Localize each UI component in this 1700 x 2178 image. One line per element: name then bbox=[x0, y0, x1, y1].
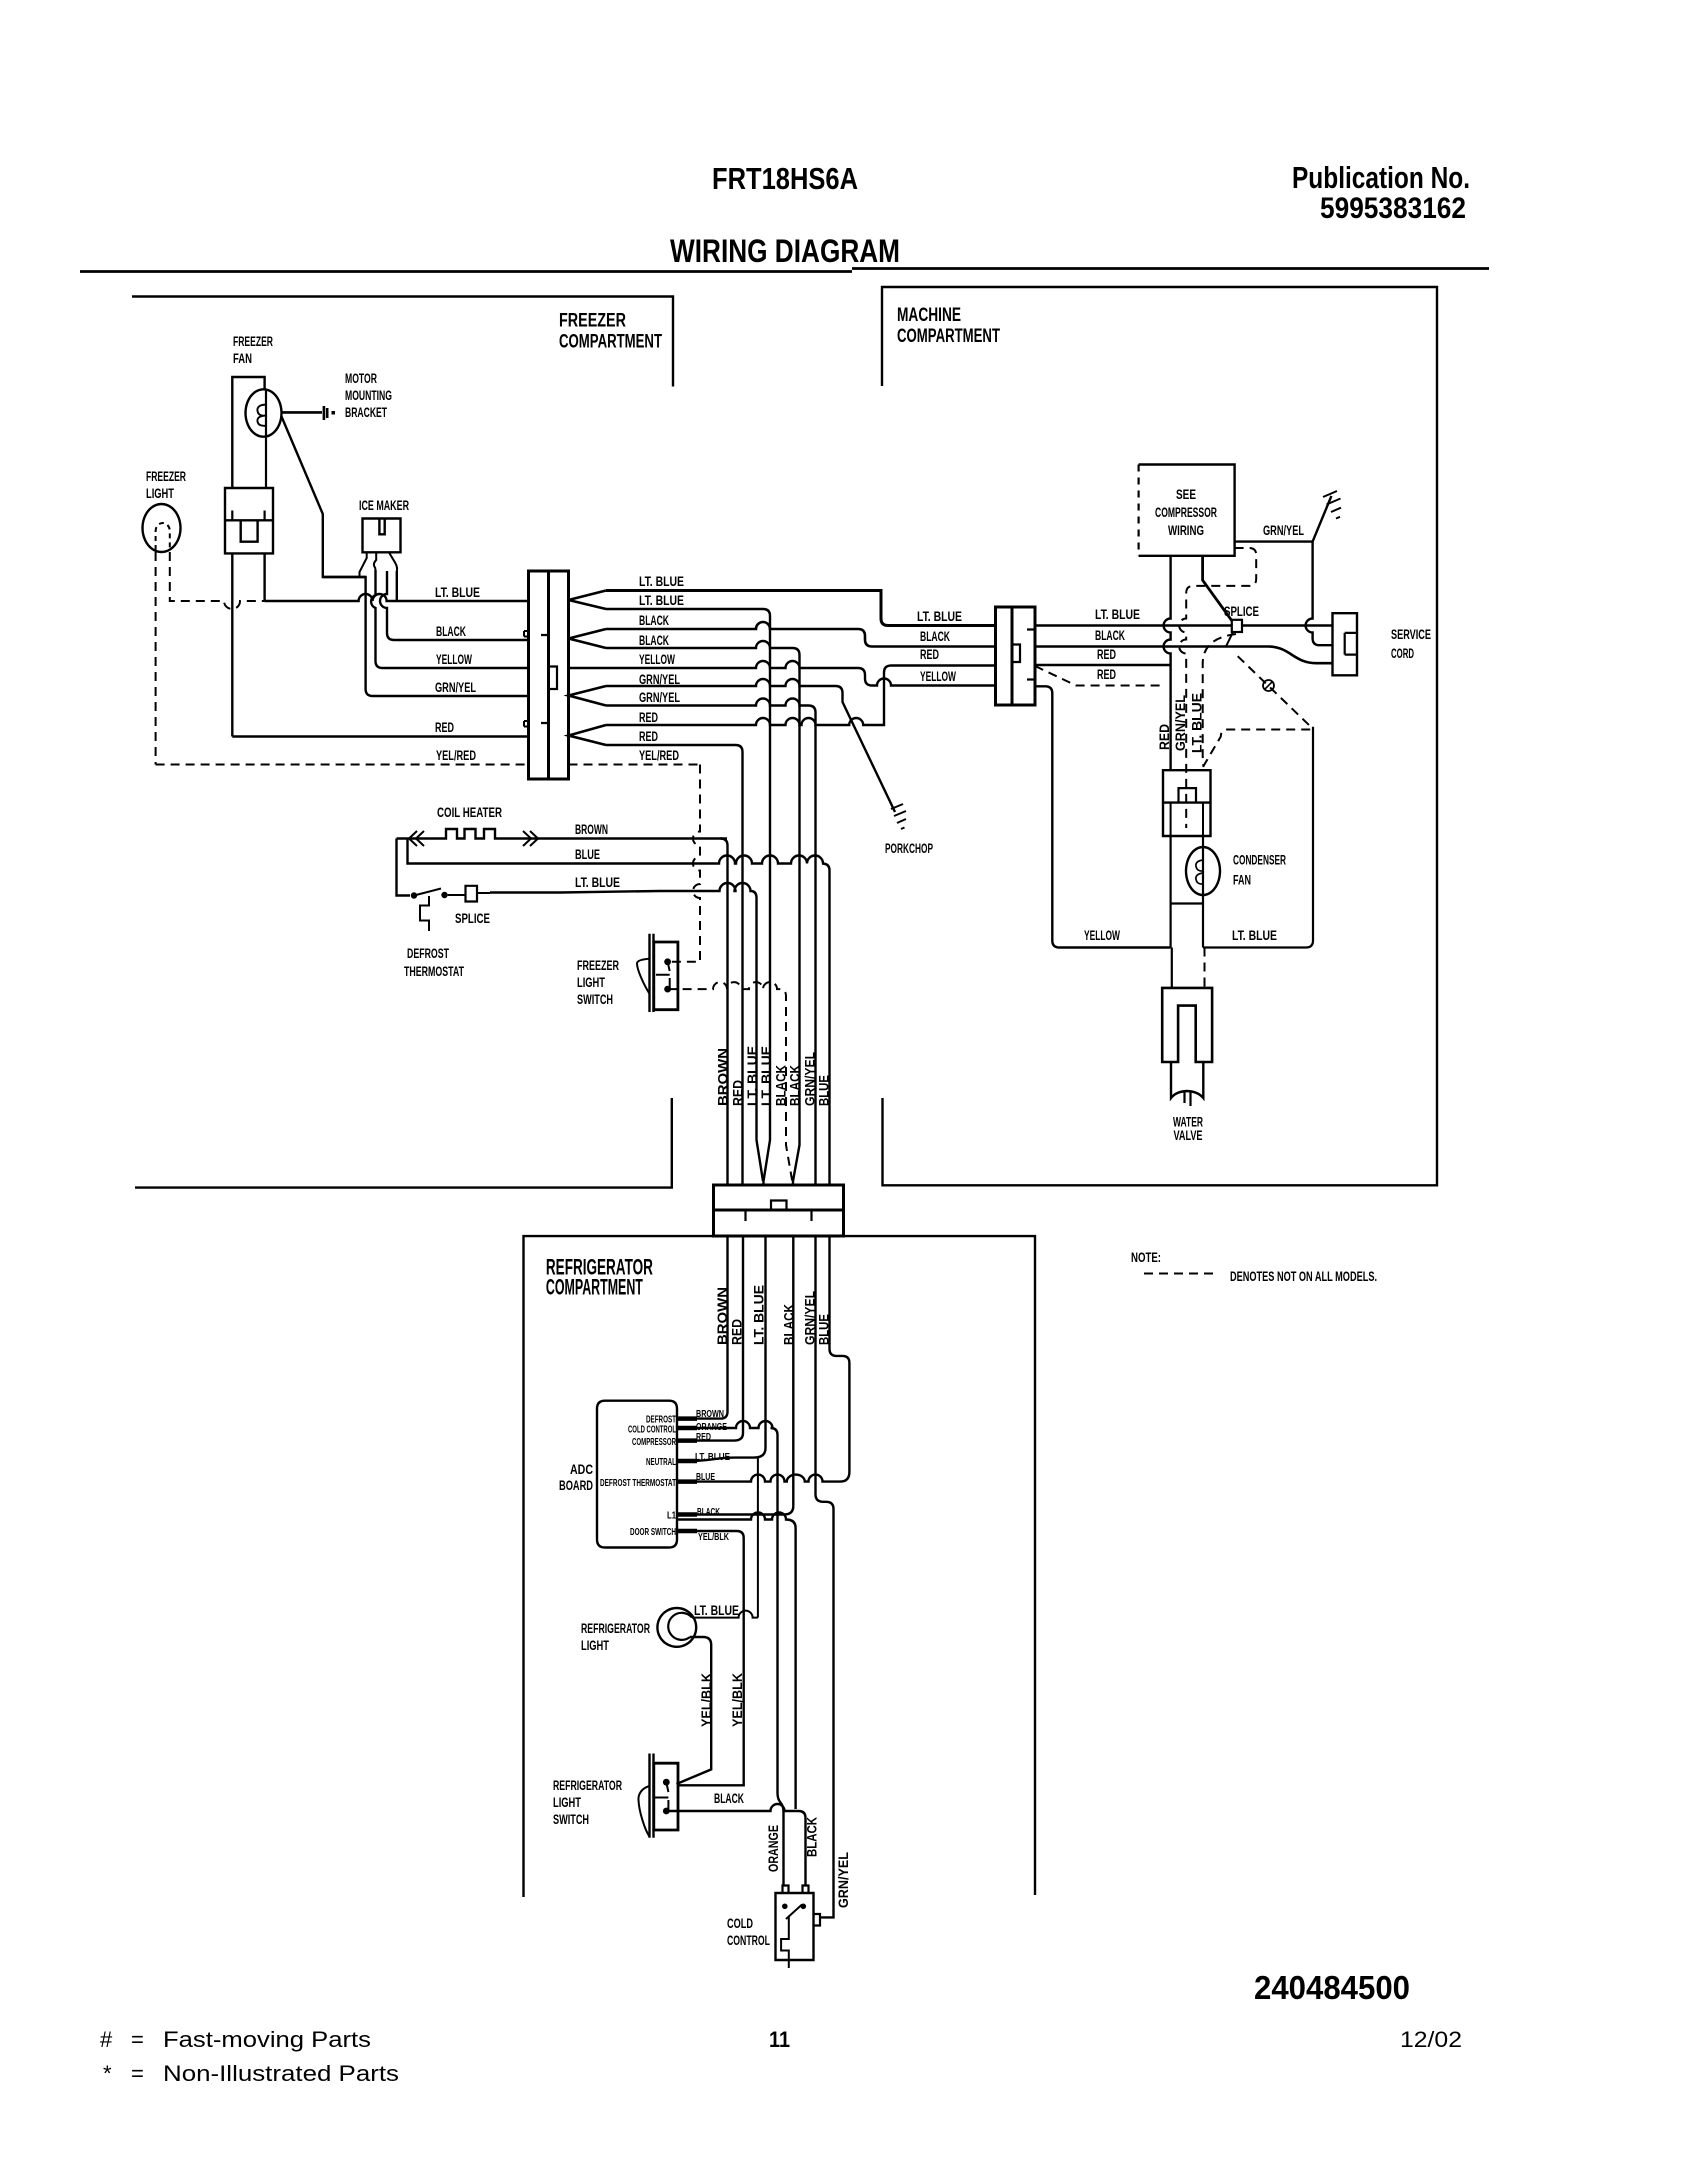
svg-text:RED: RED bbox=[639, 710, 658, 725]
svg-text:RED: RED bbox=[639, 729, 658, 744]
svg-text:RED: RED bbox=[696, 1431, 711, 1443]
svg-text:FREEZER: FREEZER bbox=[233, 334, 273, 349]
wire freezer light to LT.BLUE row dashed bbox=[170, 552, 265, 609]
wire BLACK row machine bbox=[1035, 647, 1333, 664]
wire YEL/RED dashed drop bbox=[669, 765, 700, 962]
compressor relay bbox=[1163, 770, 1211, 836]
svg-text:CONTROL: CONTROL bbox=[727, 1933, 770, 1948]
svg-text:ICE MAKER: ICE MAKER bbox=[359, 498, 409, 513]
wire YEL/BLK from ADC bbox=[677, 1531, 744, 1785]
wire BROWN drop to bundle bbox=[721, 839, 728, 1186]
chevron RED pair bbox=[569, 725, 607, 745]
svg-text:LT. BLUE: LT. BLUE bbox=[752, 1285, 767, 1345]
wire YELLOW to right connector bbox=[569, 661, 996, 686]
svg-text:COIL HEATER: COIL HEATER bbox=[437, 805, 502, 820]
wire ice maker BLACK drop bbox=[380, 571, 529, 640]
svg-text:ORANGE: ORANGE bbox=[766, 1825, 781, 1872]
wire freezer switch lower dashed bbox=[668, 982, 793, 1181]
svg-text:BLACK: BLACK bbox=[805, 1817, 820, 1857]
service cord bbox=[1333, 613, 1358, 675]
svg-text:COMPRESSOR: COMPRESSOR bbox=[1155, 505, 1217, 520]
svg-text:YELLOW: YELLOW bbox=[920, 669, 956, 684]
wire RED row left bbox=[232, 735, 528, 737]
wire RED to ADC bbox=[677, 1236, 743, 1441]
svg-text:YELLOW: YELLOW bbox=[1084, 928, 1120, 943]
wire freezer fan top loop bbox=[232, 377, 264, 488]
wire RED row machine bbox=[1035, 664, 1171, 666]
svg-text:LT. BLUE: LT. BLUE bbox=[695, 1451, 730, 1463]
wire YELLOW loop machine bbox=[1035, 686, 1171, 947]
wire BLUE jog down bbox=[830, 1236, 850, 1482]
wire ORANGE from ADC bbox=[677, 1421, 784, 1886]
cold control bbox=[776, 1893, 814, 1960]
svg-text:LIGHT: LIGHT bbox=[581, 1638, 610, 1653]
wire GRN/YEL to porkchop bbox=[606, 679, 895, 812]
svg-text:YELLOW: YELLOW bbox=[639, 652, 675, 667]
svg-text:GRN/YEL: GRN/YEL bbox=[836, 1852, 851, 1908]
svg-text:BLUE: BLUE bbox=[575, 847, 600, 862]
svg-text:COMPARTMENT: COMPARTMENT bbox=[897, 326, 1000, 347]
wire L1 to switch/cold control bbox=[677, 1513, 796, 1809]
fan stem bbox=[1171, 836, 1203, 948]
svg-text:BROWN: BROWN bbox=[715, 1287, 730, 1345]
chevron BLACK pair bbox=[569, 629, 607, 648]
svg-text:GRN/YEL: GRN/YEL bbox=[639, 672, 680, 687]
svg-text:FRT18HS6A: FRT18HS6A bbox=[712, 161, 858, 196]
svg-text:BOARD: BOARD bbox=[559, 1478, 593, 1493]
svg-text:FREEZER: FREEZER bbox=[146, 469, 186, 484]
svg-text:ADC: ADC bbox=[570, 1462, 593, 1477]
svg-text:MACHINE: MACHINE bbox=[897, 305, 961, 326]
svg-text:DEFROST THERMOSTAT: DEFROST THERMOSTAT bbox=[600, 1478, 676, 1489]
wire BROWN to ADC bbox=[677, 1236, 728, 1419]
svg-text:BLACK: BLACK bbox=[697, 1506, 720, 1518]
wire LT.BLUE row machine bbox=[1035, 624, 1333, 626]
svg-text:MOTOR: MOTOR bbox=[345, 371, 377, 386]
svg-text:LIGHT: LIGHT bbox=[553, 1795, 582, 1810]
svg-text:SPLICE: SPLICE bbox=[455, 911, 490, 926]
chevron LT.BLUE pair bbox=[569, 591, 607, 610]
coil heater element bbox=[397, 829, 728, 839]
wire defrost thermostat left leg bbox=[397, 839, 411, 896]
dashed diagonal to corner bbox=[1238, 656, 1311, 726]
wire LT.BLUE down right side bbox=[1203, 727, 1313, 948]
svg-text:#: # bbox=[100, 2027, 113, 2052]
wire LT.BLUE thick to right connector bbox=[606, 591, 996, 626]
title rule bbox=[80, 269, 1489, 272]
wire water valve right dashed bbox=[1204, 948, 1206, 988]
wire BLACK down to bundle bbox=[606, 641, 800, 1185]
svg-text:Publication No.: Publication No. bbox=[1292, 160, 1470, 195]
svg-text:LT. BLUE: LT. BLUE bbox=[1232, 928, 1277, 943]
freezer compartment border bbox=[132, 297, 673, 1188]
svg-text:LIGHT: LIGHT bbox=[146, 486, 175, 501]
svg-text:YEL/BLK: YEL/BLK bbox=[699, 1673, 714, 1727]
svg-text:GRN/YEL: GRN/YEL bbox=[803, 1052, 818, 1106]
svg-text:LT. BLUE: LT. BLUE bbox=[917, 609, 962, 624]
svg-text:FREEZER: FREEZER bbox=[559, 311, 626, 332]
svg-text:11: 11 bbox=[769, 2027, 790, 2052]
svg-text:BLACK: BLACK bbox=[639, 633, 669, 648]
svg-text:LT. BLUE: LT. BLUE bbox=[759, 1046, 774, 1106]
svg-text:LT. BLUE: LT. BLUE bbox=[745, 1046, 760, 1106]
svg-text:PORKCHOP: PORKCHOP bbox=[885, 841, 933, 856]
svg-text:FAN: FAN bbox=[1233, 873, 1251, 888]
svg-text:BLACK: BLACK bbox=[920, 629, 950, 644]
svg-text:GRN/YEL: GRN/YEL bbox=[435, 680, 476, 695]
wire BLACK to ADC L1 bbox=[677, 1236, 793, 1515]
svg-text:NEUTRAL: NEUTRAL bbox=[646, 1457, 676, 1468]
svg-text:NOTE:: NOTE: bbox=[1131, 1250, 1161, 1265]
svg-text:BLUE: BLUE bbox=[817, 1075, 832, 1106]
svg-text:RED: RED bbox=[1097, 667, 1116, 682]
wire fan right to LT.BLUE row bbox=[263, 553, 265, 601]
svg-text:YEL/BLK: YEL/BLK bbox=[730, 1673, 745, 1727]
right connector bbox=[996, 607, 1036, 705]
svg-text:BLACK: BLACK bbox=[714, 1791, 744, 1806]
wire LT.BLUE to ADC neutral bbox=[677, 1236, 766, 1461]
wire RED to right connector bbox=[606, 666, 996, 726]
freezer light bulb bbox=[143, 504, 181, 552]
svg-text:YEL/RED: YEL/RED bbox=[639, 748, 679, 763]
svg-text:240484500: 240484500 bbox=[1254, 1969, 1410, 2006]
ground (service) bbox=[1323, 491, 1341, 519]
svg-text:SPLICE: SPLICE bbox=[1224, 604, 1259, 619]
svg-text:VALVE: VALVE bbox=[1174, 1128, 1203, 1143]
wire coil heater return BLUE bbox=[408, 839, 830, 1186]
svg-text:YELLOW: YELLOW bbox=[436, 652, 472, 667]
svg-text:BLACK: BLACK bbox=[774, 1065, 789, 1106]
wire BLUE from ADC pin5 bbox=[677, 1475, 840, 1482]
svg-text:=: = bbox=[131, 2027, 144, 2052]
svg-text:*: * bbox=[103, 2061, 112, 2086]
porkchop ground bbox=[891, 804, 906, 829]
main connector bbox=[529, 571, 569, 779]
svg-text:BROWN: BROWN bbox=[696, 1408, 724, 1420]
lower connector bbox=[714, 1185, 844, 1236]
wire BLACK to right connector bbox=[606, 622, 996, 647]
svg-text:COLD CONTROL: COLD CONTROL bbox=[628, 1424, 676, 1435]
svg-text:BROWN: BROWN bbox=[716, 1048, 731, 1106]
wire compressor box to relay RED bbox=[1164, 556, 1171, 771]
svg-text:BROWN: BROWN bbox=[575, 822, 608, 837]
svg-text:GRN/YEL: GRN/YEL bbox=[1173, 695, 1188, 751]
wire water valve left bbox=[1171, 948, 1173, 988]
svg-text:BLACK: BLACK bbox=[788, 1065, 803, 1106]
wire ice maker YELLOW drop bbox=[371, 570, 528, 668]
wire fan left to RED row bbox=[231, 553, 233, 736]
svg-text:LT. BLUE: LT. BLUE bbox=[639, 574, 684, 589]
svg-text:FREEZER: FREEZER bbox=[577, 958, 619, 973]
svg-text:DENOTES NOT ON ALL MODELS.: DENOTES NOT ON ALL MODELS. bbox=[1230, 1269, 1377, 1284]
fan connector pins bbox=[232, 511, 264, 521]
svg-text:DOOR SWITCH: DOOR SWITCH bbox=[630, 1527, 676, 1538]
wire bulb lower YEL/BLK bbox=[677, 1637, 712, 1784]
svg-text:LIGHT: LIGHT bbox=[577, 975, 606, 990]
wire RED down to bundle bbox=[606, 745, 743, 1185]
svg-text:SERVICE: SERVICE bbox=[1391, 627, 1431, 642]
svg-text:COMPARTMENT: COMPARTMENT bbox=[559, 332, 662, 353]
ADC board bbox=[597, 1401, 677, 1548]
dashed LT.BLUE vertical to relay bbox=[1203, 634, 1236, 766]
wire splice to BLACK row bbox=[1226, 632, 1233, 647]
svg-text:LT. BLUE: LT. BLUE bbox=[694, 1603, 739, 1618]
chevron GRN/YEL pair bbox=[569, 686, 607, 706]
wire GRN/YEL down to bundle bbox=[606, 699, 816, 1185]
svg-text:LT. BLUE: LT. BLUE bbox=[639, 593, 684, 608]
svg-text:COLD: COLD bbox=[727, 1916, 753, 1931]
svg-text:SWITCH: SWITCH bbox=[553, 1812, 589, 1827]
wire YEL/RED row dashed bbox=[156, 764, 529, 766]
svg-text:LT. BLUE: LT. BLUE bbox=[1190, 693, 1205, 753]
svg-text:BLUE: BLUE bbox=[817, 1314, 832, 1345]
svg-text:WIRING: WIRING bbox=[1168, 523, 1204, 538]
see compressor wiring box bbox=[1139, 465, 1235, 556]
svg-text:RED: RED bbox=[920, 647, 939, 662]
wire YEL/RED dashed right bbox=[569, 764, 701, 766]
svg-text:SWITCH: SWITCH bbox=[577, 992, 613, 1007]
svg-text:BLACK: BLACK bbox=[1095, 628, 1125, 643]
svg-text:BLACK: BLACK bbox=[782, 1304, 797, 1345]
svg-text:THERMOSTAT: THERMOSTAT bbox=[404, 964, 465, 979]
wire ice maker GRN/YEL drop bbox=[323, 577, 529, 696]
wire LT.BLUE down to bundle bbox=[606, 609, 770, 1185]
water valve bbox=[1162, 988, 1212, 1062]
ice maker bbox=[363, 519, 401, 553]
svg-text:GRN/YEL: GRN/YEL bbox=[1263, 523, 1304, 538]
svg-text:BLACK: BLACK bbox=[436, 624, 466, 639]
wire compressor box diagonal to splice bbox=[1203, 556, 1232, 621]
svg-text:REFRIGERATOR: REFRIGERATOR bbox=[553, 1778, 622, 1793]
svg-text:YEL/BLK: YEL/BLK bbox=[698, 1531, 729, 1543]
wire ice maker LT.BLUE drop bbox=[396, 571, 398, 601]
wire LT.BLUE heater row bbox=[490, 883, 763, 1181]
dashed horizontal to relay bbox=[1203, 730, 1310, 771]
svg-text:SEE: SEE bbox=[1176, 487, 1196, 502]
svg-text:LT. BLUE: LT. BLUE bbox=[1095, 607, 1140, 622]
refrigerator light switch bbox=[650, 1754, 654, 1838]
svg-text:CORD: CORD bbox=[1391, 646, 1414, 661]
svg-text:BLACK: BLACK bbox=[639, 613, 669, 628]
wire LT.BLUE row left bbox=[265, 594, 529, 601]
svg-text:RED: RED bbox=[1097, 647, 1116, 662]
svg-text:Fast-moving Parts: Fast-moving Parts bbox=[163, 2027, 371, 2052]
svg-text:FAN: FAN bbox=[233, 351, 252, 366]
refrigerator light bulb bbox=[657, 1608, 696, 1647]
splice machine bbox=[1232, 620, 1242, 632]
wire BLACK from switch bbox=[666, 1804, 805, 1886]
svg-text:RED: RED bbox=[435, 720, 454, 735]
ice maker pin leads bbox=[360, 552, 398, 577]
svg-text:BRACKET: BRACKET bbox=[345, 405, 388, 420]
wire RED2 dashed machine bbox=[1035, 666, 1164, 686]
svg-text:YEL/RED: YEL/RED bbox=[436, 748, 476, 763]
wire LT.BLUE branch to refrigerator light bbox=[692, 1458, 758, 1618]
svg-text:5995383162: 5995383162 bbox=[1320, 192, 1466, 225]
svg-text:COMPARTMENT: COMPARTMENT bbox=[546, 1275, 643, 1300]
wire freezer light YEL/RED dashed bbox=[155, 552, 157, 765]
freezer light switch bbox=[650, 934, 654, 1012]
freezer fan connector bbox=[225, 488, 273, 553]
svg-text:GRN/YEL: GRN/YEL bbox=[639, 690, 680, 705]
relay internal wires bbox=[1171, 803, 1203, 836]
svg-text:WIRING DIAGRAM: WIRING DIAGRAM bbox=[670, 233, 900, 269]
wire GRN/YEL to ground bbox=[1235, 496, 1332, 542]
svg-text:REFRIGERATOR: REFRIGERATOR bbox=[581, 1621, 650, 1636]
svg-text:LT. BLUE: LT. BLUE bbox=[435, 585, 480, 600]
wire GRN/YEL down refrigerator bbox=[816, 1236, 834, 1917]
condenser fan bbox=[1186, 847, 1220, 895]
svg-text:COMPRESSOR: COMPRESSOR bbox=[632, 1437, 676, 1448]
svg-text:L1: L1 bbox=[667, 1511, 676, 1522]
splice (defrost) bbox=[448, 893, 490, 895]
svg-text:Non-Illustrated Parts: Non-Illustrated Parts bbox=[163, 2061, 399, 2086]
svg-text:=: = bbox=[131, 2061, 144, 2086]
defrost thermostat bbox=[411, 892, 417, 898]
machine dashed loop bbox=[1179, 548, 1256, 828]
svg-text:GRN/YEL: GRN/YEL bbox=[803, 1291, 818, 1345]
machine compartment border bbox=[882, 287, 1437, 1185]
wire GRN/YEL to service cord bbox=[1306, 542, 1333, 646]
svg-text:RED: RED bbox=[1157, 724, 1172, 750]
svg-text:RED: RED bbox=[731, 1080, 746, 1106]
refrigerator compartment border bbox=[524, 1236, 1036, 1897]
svg-text:LT. BLUE: LT. BLUE bbox=[575, 875, 620, 890]
note dashed sample bbox=[1144, 1273, 1219, 1275]
at symbol ground bbox=[1263, 680, 1274, 691]
motor mounting bracket bbox=[282, 406, 328, 420]
svg-text:MOUNTING: MOUNTING bbox=[345, 388, 392, 403]
wire bracket to ice maker bbox=[282, 417, 366, 578]
freezer fan motor bbox=[246, 389, 282, 436]
svg-text:DEFROST: DEFROST bbox=[407, 946, 450, 961]
svg-text:RED: RED bbox=[730, 1319, 745, 1345]
svg-text:12/02: 12/02 bbox=[1400, 2027, 1462, 2052]
svg-text:CONDENSER: CONDENSER bbox=[1233, 853, 1286, 868]
